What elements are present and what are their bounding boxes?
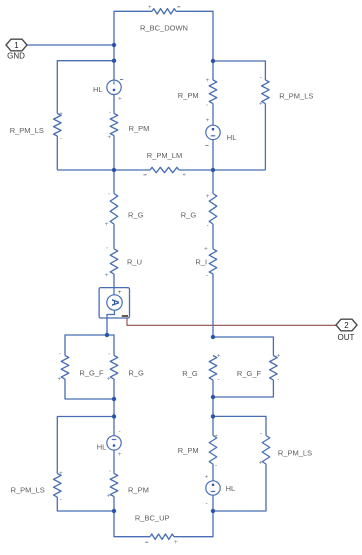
svg-text:HL: HL: [226, 484, 236, 493]
svg-text:HL: HL: [97, 443, 107, 452]
svg-text:+: +: [204, 246, 208, 253]
svg-text:R_G: R_G: [181, 211, 197, 220]
svg-text:R_PM: R_PM: [178, 446, 199, 455]
svg-text:R_G: R_G: [128, 368, 144, 377]
svg-text:+: +: [57, 375, 61, 382]
svg-text:GND: GND: [7, 52, 25, 61]
svg-text:R_I: R_I: [195, 258, 207, 267]
svg-text:R_PM_LS: R_PM_LS: [11, 486, 45, 495]
svg-text:+: +: [205, 473, 209, 480]
svg-text:R_PM: R_PM: [178, 91, 199, 100]
svg-text:2: 2: [344, 321, 349, 330]
svg-text:R_PM_LS: R_PM_LS: [279, 91, 313, 100]
svg-text:+: +: [59, 111, 63, 118]
svg-text:R_G: R_G: [128, 211, 144, 220]
svg-text:+: +: [259, 460, 263, 467]
svg-text:R_PM: R_PM: [129, 124, 150, 133]
svg-text:R_PM_LM: R_PM_LM: [147, 151, 182, 160]
svg-text:+: +: [148, 4, 152, 11]
svg-text:+: +: [107, 493, 111, 500]
svg-text:R_PM_LS: R_PM_LS: [278, 448, 312, 457]
svg-text:R_G: R_G: [182, 369, 198, 378]
svg-text:R_BC_UP: R_BC_UP: [135, 513, 170, 522]
svg-text:1: 1: [14, 41, 19, 50]
svg-text:+: +: [105, 221, 109, 228]
svg-text:+: +: [206, 117, 210, 124]
svg-text:+: +: [214, 433, 218, 440]
svg-text:+: +: [107, 375, 111, 382]
svg-text:+: +: [118, 451, 122, 458]
svg-text:OUT: OUT: [338, 333, 355, 342]
svg-text:+: +: [206, 77, 210, 84]
svg-text:HL: HL: [227, 133, 237, 142]
svg-text:+: +: [206, 193, 210, 200]
svg-text:+: +: [118, 289, 122, 296]
svg-text:R_BC_DOWN: R_BC_DOWN: [140, 24, 188, 33]
svg-text:+: +: [105, 272, 109, 279]
svg-text:R_G_F: R_G_F: [79, 368, 104, 377]
svg-text:+: +: [217, 352, 221, 359]
svg-text:+: +: [59, 470, 63, 477]
svg-text:+: +: [118, 96, 122, 103]
svg-text:+: +: [182, 172, 186, 179]
svg-text:+: +: [259, 101, 263, 108]
svg-text:A: A: [109, 299, 120, 306]
svg-text:+: +: [107, 134, 111, 141]
svg-text:+: +: [174, 539, 178, 546]
svg-text:HL: HL: [93, 85, 103, 94]
svg-text:R_G_F: R_G_F: [237, 369, 262, 378]
svg-text:R_PM: R_PM: [128, 486, 149, 495]
svg-text:R_U: R_U: [127, 258, 142, 267]
svg-text:R_PM_LS: R_PM_LS: [10, 126, 44, 135]
svg-text:+: +: [276, 352, 280, 359]
